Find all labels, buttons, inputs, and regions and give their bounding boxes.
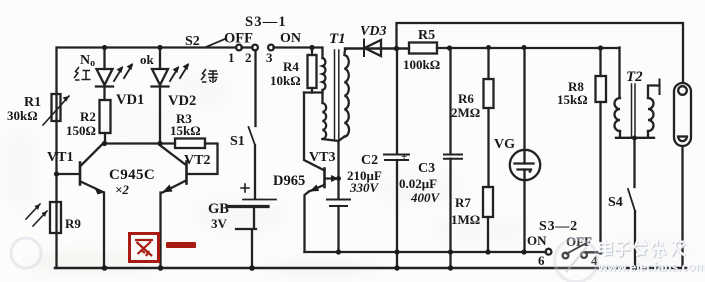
svg-text:100kΩ: 100kΩ <box>403 57 440 72</box>
switch S3-1 contact 3 <box>268 45 274 51</box>
transformer T2 left winding <box>615 98 621 138</box>
svg-text:ON: ON <box>280 31 301 46</box>
svg-text:R2: R2 <box>80 109 96 124</box>
wire VT3 emitter to common rail <box>305 251 547 253</box>
svg-text:330V: 330V <box>349 180 380 195</box>
resistor R8 <box>596 48 607 252</box>
wire R5 to T2 corner <box>437 47 620 49</box>
svg-text:VD1: VD1 <box>116 92 144 108</box>
svg-text:3V: 3V <box>211 216 228 231</box>
wire node A horizontal to R3 <box>104 142 175 144</box>
wire VT2 emitter rail <box>159 193 161 269</box>
capacitor snubber <box>327 200 350 253</box>
potentiometer R1 <box>43 94 69 125</box>
svg-text:6: 6 <box>538 253 545 268</box>
wire T2 primary lead <box>618 48 620 99</box>
svg-text:C945C: C945C <box>109 167 155 183</box>
transformer T1 primary lower winding <box>323 103 327 139</box>
label hong red char <box>74 67 91 80</box>
resistor R5 <box>409 43 437 54</box>
wire T2 bottom join <box>616 137 654 139</box>
wire VD1 branch top <box>103 48 105 70</box>
wire T1 primary bottom to collector line <box>323 139 339 141</box>
svg-text:×2: ×2 <box>115 182 129 197</box>
resistor R3 <box>175 139 205 149</box>
svg-text:1MΩ: 1MΩ <box>451 212 480 227</box>
wire R3 to VT2 base <box>188 144 218 175</box>
switch S3-2 <box>546 244 601 259</box>
svg-text:R4: R4 <box>283 59 299 74</box>
svg-text:10kΩ: 10kΩ <box>270 73 301 88</box>
switch S4 <box>628 138 635 268</box>
svg-text:0.02μF: 0.02μF <box>399 176 437 191</box>
svg-text:C2: C2 <box>361 153 378 168</box>
svg-text:400V: 400V <box>410 190 441 205</box>
wire collector line down <box>337 141 339 199</box>
resistor R4 <box>304 48 323 93</box>
wire base feed riser <box>304 93 325 171</box>
wire top rail left section <box>57 46 236 48</box>
wire T1 winding junction <box>321 90 323 103</box>
wire bottom ground rail <box>55 267 686 270</box>
svg-text:T1: T1 <box>329 31 346 47</box>
watermark logo circle left <box>11 238 41 268</box>
capacitor C2 <box>384 49 409 269</box>
svg-text:R9: R9 <box>65 216 81 231</box>
svg-text:+: + <box>401 151 407 163</box>
svg-text:15kΩ: 15kΩ <box>170 123 201 138</box>
battery GB <box>228 200 276 269</box>
transistor VT2 <box>161 146 187 193</box>
transformer T1 secondary winding <box>339 49 350 142</box>
resistor R7 <box>483 187 493 252</box>
svg-text:S1: S1 <box>230 134 245 149</box>
wire VT1 emitter rail <box>103 193 105 269</box>
paper texture blobs <box>2 72 690 278</box>
resistor R2 <box>100 100 111 133</box>
battery polarity plus <box>241 184 249 192</box>
svg-text:VT2: VT2 <box>184 153 210 168</box>
switch S1 <box>249 50 256 199</box>
svg-text:150Ω: 150Ω <box>66 123 96 138</box>
svg-text:GB: GB <box>208 201 229 217</box>
LED VD2 emission arrows <box>170 63 189 81</box>
svg-text:No: No <box>80 53 95 69</box>
svg-text:15kΩ: 15kΩ <box>557 92 588 107</box>
transistor VT3 <box>305 169 339 253</box>
svg-text:R7: R7 <box>455 195 471 210</box>
figure label red <box>130 234 197 262</box>
LED VD2 <box>152 69 169 144</box>
svg-text:S4: S4 <box>608 195 623 210</box>
wire contact3 to T1 <box>274 48 323 59</box>
switch S2 <box>205 39 258 51</box>
svg-text:VG: VG <box>494 137 515 152</box>
wire R6 to R7 <box>487 108 489 187</box>
svg-text:1: 1 <box>228 50 235 65</box>
transformer T1 primary upper winding <box>323 58 326 90</box>
watermark logo circle right <box>555 239 598 282</box>
svg-text:VT1: VT1 <box>47 150 73 165</box>
svg-text:R5: R5 <box>418 28 435 43</box>
svg-text:www.elecfans.com: www.elecfans.com <box>597 260 705 274</box>
svg-text:OFF: OFF <box>224 31 253 47</box>
svg-text:ok: ok <box>140 52 155 67</box>
svg-text:30kΩ: 30kΩ <box>7 108 38 123</box>
svg-text:VD2: VD2 <box>168 93 196 109</box>
wire VD2 branch top <box>159 48 161 70</box>
svg-text:ON: ON <box>527 233 547 248</box>
svg-text:S3—2: S3—2 <box>539 219 578 234</box>
svg-text:2: 2 <box>245 50 252 65</box>
photoresistor R9 <box>26 202 61 233</box>
transformer T2 right winding <box>648 80 660 138</box>
svg-text:C3: C3 <box>418 161 435 176</box>
svg-text:VT3: VT3 <box>309 150 335 165</box>
wire left rail <box>55 48 57 269</box>
resistor R6 <box>484 48 494 109</box>
svg-text:2MΩ: 2MΩ <box>451 105 480 120</box>
wire upper bypass rail <box>397 23 684 83</box>
svg-text:S3—1: S3—1 <box>245 14 287 30</box>
svg-text:S2: S2 <box>185 34 200 49</box>
LED VD1 <box>96 69 113 100</box>
svg-text:VD3: VD3 <box>360 24 386 39</box>
svg-text:D965: D965 <box>273 173 305 189</box>
wire R2 bottom to node <box>104 133 106 144</box>
transformer T2 core <box>632 84 636 138</box>
svg-text:R6: R6 <box>458 91 474 106</box>
label lv green char <box>201 69 218 83</box>
transformer T1 core <box>335 50 339 140</box>
svg-text:T2: T2 <box>626 69 643 85</box>
transistor VT1 <box>57 143 105 195</box>
fluorescent lamp tube <box>674 83 691 268</box>
neon lamp VG <box>510 48 540 253</box>
svg-text:3: 3 <box>266 50 273 65</box>
LED VD1 emission arrows <box>114 63 133 81</box>
diode VD3 <box>345 40 409 57</box>
capacitor C3 <box>444 48 462 269</box>
